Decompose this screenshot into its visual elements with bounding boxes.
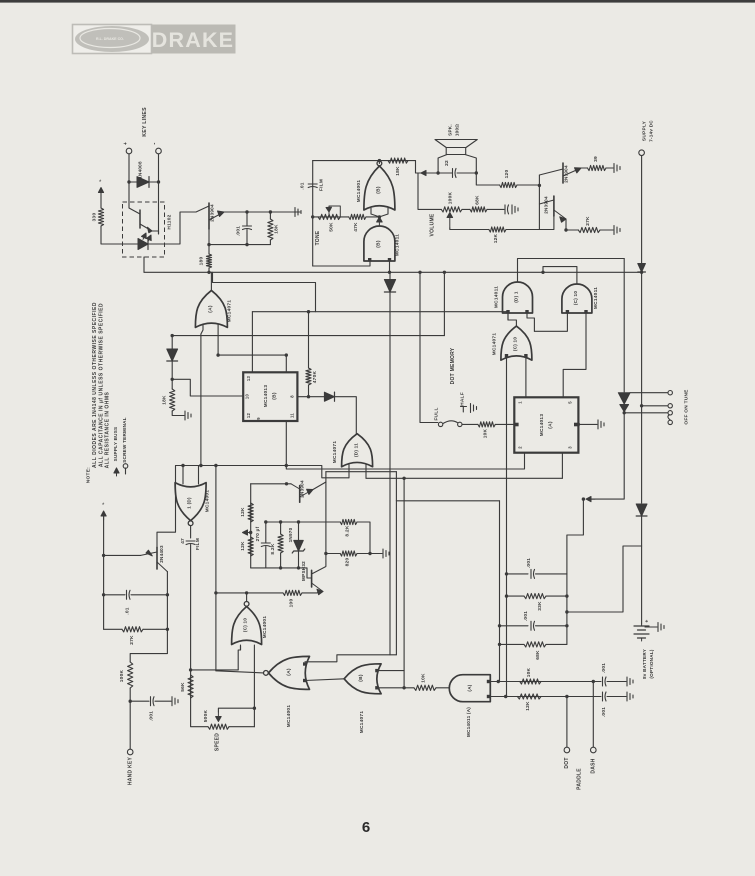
switch TUNE contact [668, 411, 672, 415]
flipflop U MC14013 (A) box [514, 397, 578, 452]
NAND B pin 6 [388, 258, 391, 261]
svg-text:68K: 68K [535, 650, 541, 660]
wire pin12 row [218, 354, 286, 356]
speaker driver box [446, 148, 466, 155]
svg-text:10: 10 [245, 394, 250, 400]
rail x390 [390, 292, 396, 655]
flipflop U MC14013 (B) box [243, 372, 297, 421]
svg-text:18K: 18K [274, 224, 280, 234]
gate U MC14011 (C) top [562, 284, 592, 313]
rail x396 low [395, 501, 397, 655]
node zener top [297, 520, 300, 523]
left col arrow down [103, 513, 105, 629]
diode dm bottom lead [171, 361, 173, 379]
capacitor C .001 keyer [243, 226, 252, 230]
svg-text:470K: 470K [312, 370, 318, 383]
node x404 10K [402, 686, 405, 689]
volume top to 68K [462, 208, 470, 210]
gate U MC14011 (D) top [503, 282, 533, 313]
capacitor C .01 film [308, 184, 317, 188]
270 leads [265, 522, 267, 543]
svg-text:MC14001: MC14001 [356, 180, 362, 203]
tone mid wire [313, 216, 349, 218]
820 left lead [326, 553, 340, 555]
capacitor C .001 ladder2 [531, 621, 535, 630]
battery to ground [645, 626, 657, 628]
resistor R 18K keyer [268, 219, 273, 240]
svg-text:12K: 12K [525, 701, 531, 711]
svg-text:ALL CAPACITANCE IN μf UNLESS O: ALL CAPACITANCE IN μf UNLESS OTHERWISE S… [98, 303, 104, 467]
nandC in right [563, 313, 586, 397]
transistor Q MPSH32 [311, 570, 313, 587]
NAND B output arrow up [378, 218, 380, 226]
wire key- down [158, 154, 160, 182]
switch HALF common [458, 422, 462, 426]
svg-text:PADDLE: PADDLE [577, 768, 583, 790]
tone osc left loop [312, 161, 314, 266]
optocoupler U H1102 dashed box [123, 202, 165, 257]
cap 01 row left [104, 594, 125, 596]
node dash 499 [497, 680, 500, 683]
node dot cap [565, 695, 568, 698]
svg-text:MC14071: MC14071 [332, 441, 338, 464]
resistor R 18K feedback [388, 158, 408, 163]
zener leads [298, 522, 300, 540]
osc emitter to rail [313, 472, 326, 490]
battery BT 8v [634, 626, 649, 638]
ladder cap2 right [536, 625, 567, 627]
82K leads [280, 522, 282, 534]
svg-text:(A): (A) [208, 305, 214, 313]
opto phototransistor emitter [140, 224, 159, 231]
resistor R 820 [340, 551, 357, 556]
svg-text:18K: 18K [162, 395, 168, 405]
wire key+ down [128, 154, 130, 202]
ladder cap2 row [500, 625, 529, 627]
svg-text:.01: .01 [125, 607, 131, 615]
svg-text:10K: 10K [421, 673, 427, 683]
68K ladder leads [500, 643, 525, 645]
volume wiper arrow [449, 214, 451, 228]
svg-text:DOT MEMORY: DOT MEMORY [450, 347, 456, 384]
ffA pin mid-left [515, 423, 519, 427]
svg-text:.001: .001 [523, 611, 529, 621]
node cap01 left [102, 593, 105, 596]
svg-text:NOTE:: NOTE: [86, 467, 92, 483]
2N4403 base up [157, 466, 176, 548]
svg-text:DRAKE: DRAKE [152, 28, 234, 52]
node darlington collector [538, 184, 541, 187]
wire R330 to LED [101, 226, 128, 244]
svg-text:27K: 27K [585, 216, 591, 226]
node ladder b [505, 594, 508, 597]
rail x499 [499, 501, 501, 682]
resistor R 10K dash [520, 679, 541, 684]
tone osc top wire [313, 160, 416, 162]
diode dm top lead [171, 336, 173, 349]
nandC pin sq left [566, 310, 569, 313]
zener CR 1N970 [294, 540, 304, 551]
ladder to supply [567, 546, 642, 612]
ground HALF [471, 404, 477, 413]
node key+ diode [127, 180, 130, 183]
wire LED anode [128, 243, 138, 245]
norA pin bottom [303, 679, 306, 682]
terminal DOT [564, 747, 570, 753]
resistor R 12K osc2 [248, 537, 253, 556]
ground keyer emitter row [295, 208, 301, 217]
resistor R 12K dot [517, 694, 541, 699]
note symbol tails [116, 468, 118, 474]
node 82K top [279, 520, 282, 523]
rail x420 switch [420, 272, 438, 422]
svg-text:2: 2 [518, 446, 523, 449]
wire pin10 route [172, 379, 243, 396]
svg-text:(B): (B) [358, 674, 364, 682]
wire w335 [172, 335, 444, 337]
tune wire [624, 412, 667, 414]
wire LED cathode to box edge [148, 243, 165, 245]
gate U MC14071 (C) OR [501, 326, 532, 360]
wire Q1 emitter row [224, 211, 300, 213]
diode CR 1N4008 [137, 177, 149, 188]
bus3b pin11 to pin5 [286, 421, 524, 469]
svg-text:820: 820 [345, 558, 351, 567]
svg-text:SUPPLY BUSS: SUPPLY BUSS [113, 427, 118, 462]
svg-text:2N3904: 2N3904 [210, 204, 215, 222]
orC out to nandD [508, 312, 516, 326]
ground 820 [383, 549, 389, 558]
Q out2 emitter down [565, 219, 567, 230]
or A input right [217, 324, 219, 355]
svg-text:8.2K: 8.2K [345, 525, 351, 536]
nandD pin sq right [525, 310, 528, 313]
speaker left lead [438, 155, 447, 174]
opto LED emission arrow 2 [147, 240, 150, 242]
node bus at supply diode [640, 271, 643, 274]
wire arrow to R330 [100, 190, 102, 208]
resistor R 27K handkey [122, 627, 143, 632]
resistor R 100K [128, 662, 133, 688]
82K top to corner [357, 522, 370, 554]
node bus at MC14011B pin [388, 271, 391, 274]
svg-text:6: 6 [362, 819, 370, 836]
potentiometer R 500K SPEED [208, 724, 229, 729]
speed right lead [229, 726, 254, 728]
switch HALF contact [461, 407, 467, 413]
diode under NAND B leads [389, 272, 391, 279]
wire opto emitter to key- [158, 231, 160, 234]
norC in right [253, 645, 255, 708]
wire Q1 base down [208, 229, 210, 245]
ground dot [627, 692, 633, 701]
svg-text:MC14001: MC14001 [286, 705, 292, 728]
supply arrow volume wire [426, 172, 430, 174]
33K lead right [546, 595, 567, 597]
node dash cap [592, 680, 595, 683]
100 to emitter [302, 591, 322, 593]
cap .001 lead top [246, 212, 248, 226]
opto LED [138, 239, 148, 250]
switch ON contact [668, 404, 672, 408]
opto phototransistor base bar [139, 210, 141, 228]
NAND B pin 5 [368, 258, 371, 261]
collector to 27K row [166, 595, 168, 630]
node tune bottom [623, 411, 626, 414]
ground 68K bypass [512, 205, 518, 214]
node 470K bottom [307, 395, 310, 398]
wire 47K to NOR inputs [366, 216, 379, 218]
rail x396 [395, 472, 397, 501]
svg-text:47K: 47K [353, 222, 359, 232]
svg-text:11: 11 [290, 413, 295, 418]
speed wiper arrow [217, 712, 219, 720]
bus3 [176, 466, 350, 478]
speaker right lead [465, 155, 476, 174]
svg-text:5: 5 [568, 401, 573, 404]
svg-text:OFF ON TUNE: OFF ON TUNE [684, 389, 690, 425]
270 lead low [265, 547, 267, 568]
svg-text:12K: 12K [240, 541, 246, 551]
capacitor C .001 handkey [151, 697, 155, 706]
supply tap wire [587, 413, 624, 499]
ladder cap1 right [536, 573, 567, 575]
node cap01 right [166, 593, 169, 596]
rail x325 down [325, 482, 327, 566]
opto LED emission arrow [142, 238, 145, 240]
svg-text:2N3904: 2N3904 [300, 480, 305, 498]
svg-text:2N3904: 2N3904 [544, 196, 549, 214]
svg-text:1: 1 [518, 401, 523, 404]
R27K to ground [600, 229, 613, 231]
svg-text:47: 47 [180, 538, 186, 544]
svg-text:68K: 68K [475, 195, 481, 205]
wire w311 [252, 311, 508, 313]
svg-text:1N4008: 1N4008 [138, 161, 143, 179]
svg-text:39: 39 [593, 156, 599, 162]
68K ladder right [546, 643, 567, 645]
R39 to ground [606, 167, 613, 169]
node osc bot 82K [279, 566, 282, 569]
svg-text:12K: 12K [240, 507, 246, 517]
orB in top [377, 671, 404, 688]
ground handkey cap [172, 697, 178, 706]
wire opto out bottom [143, 257, 145, 272]
R180 to bus [208, 268, 210, 272]
rail x404 [403, 478, 405, 670]
node pot left [311, 215, 314, 218]
supply rail low [641, 516, 643, 624]
capacitor C .001 ladder1 [531, 569, 535, 578]
node ladder tap [565, 610, 568, 613]
wire cap22 right [457, 172, 476, 174]
nandD pin sq left [506, 310, 509, 313]
10K to nandA [436, 687, 449, 689]
node x444 bus1 [443, 271, 446, 274]
node 56K top [189, 668, 192, 671]
svg-text:(C) 10: (C) 10 [573, 291, 578, 305]
gate U MC14011 (A) [449, 675, 490, 702]
terminal key line - [156, 148, 162, 154]
svg-text:.001: .001 [526, 558, 532, 568]
svg-text:8: 8 [290, 395, 295, 398]
820 right lead [357, 553, 370, 555]
zener lead low [298, 551, 300, 568]
svg-text:FILM: FILM [319, 179, 325, 191]
node 270 top [264, 520, 267, 523]
bus supply horizontal [144, 271, 642, 273]
node osc bot zener [297, 566, 300, 569]
orC in left long [506, 357, 508, 697]
wire pin8 row [297, 396, 324, 398]
56K top row [191, 669, 239, 671]
supply buss arrow left col [103, 516, 105, 520]
orD input left [348, 465, 350, 478]
bus4 [366, 477, 562, 479]
orB pin top [375, 669, 378, 672]
resistor R 8.2K osc [278, 534, 283, 553]
rail y500 [396, 500, 499, 502]
svg-text:330: 330 [92, 213, 98, 222]
svg-text:2N3904: 2N3904 [564, 165, 569, 183]
82K lead low [280, 553, 282, 568]
wire 12K to Q base rail [539, 216, 554, 230]
resistor R 10K iambic [414, 685, 436, 690]
svg-text:HAND KEY: HAND KEY [128, 757, 134, 786]
top edge black bar [0, 0, 755, 3]
svg-text:MC14011: MC14011 [593, 287, 599, 309]
node x215 out [214, 591, 217, 594]
dot cap row [567, 696, 601, 698]
wire diode to orD [335, 397, 357, 434]
wire opto to Q1 collector [165, 212, 197, 244]
wire speaker to 120 [476, 173, 499, 185]
svg-text:-: - [153, 142, 159, 144]
resistor R 12K osc1 [248, 503, 253, 522]
node ladder a [505, 572, 508, 575]
gate U MC14001 (A) [264, 656, 310, 689]
svg-text:.001: .001 [149, 711, 155, 721]
diode CR supply 2 [636, 504, 647, 516]
NAND B input left [313, 261, 370, 266]
supply buss arrow at 330 [100, 193, 102, 197]
potentiometer R 50K TONE [318, 214, 340, 219]
node x420 bus1 [418, 271, 421, 274]
wire diode cathode [149, 181, 159, 183]
svg-text:ALL DIODES ARE 1N4148 UNLESS O: ALL DIODES ARE 1N4148 UNLESS OTHERWISE S… [92, 302, 98, 468]
svg-text:MC14071: MC14071 [492, 333, 498, 356]
wire pin12 drop [285, 355, 287, 372]
norC output [246, 593, 248, 602]
ground ffA [598, 420, 604, 429]
node ffA gnd [577, 423, 580, 426]
orC pin sq right [524, 354, 527, 357]
12K af to base rail [506, 229, 539, 231]
orD input right [365, 465, 367, 479]
note supply buss arrow symbol [116, 473, 118, 476]
svg-text:(C) 10: (C) 10 [513, 337, 518, 351]
ground battery [658, 623, 664, 632]
nor D output to cap [190, 526, 192, 539]
capacitor C .01 handkey [127, 590, 131, 599]
supply rail mid [641, 272, 643, 503]
terminal DASH [591, 747, 597, 753]
node ladder right b [565, 594, 568, 597]
gate U MC14071 (D) [342, 434, 373, 467]
node speaker right [475, 171, 478, 174]
svg-text:(D) 11: (D) 11 [354, 443, 359, 457]
Q out1 emitter wire [581, 167, 588, 169]
or A output [210, 272, 212, 290]
node 470K top [307, 310, 310, 313]
svg-text:H1102: H1102 [167, 214, 173, 229]
node cap 001 bottom [245, 243, 248, 246]
svg-text:2N4403: 2N4403 [159, 545, 164, 563]
svg-text:.001: .001 [601, 663, 607, 673]
resistor R 120 [500, 182, 517, 187]
gate U MC14071 (B) [344, 664, 381, 694]
rail y471 [326, 471, 397, 473]
svg-text:SUPPLY: SUPPLY [642, 120, 648, 141]
svg-text:MC14011: MC14011 [395, 234, 401, 256]
diode CR to orD [324, 392, 334, 401]
cap 01 row right [131, 594, 167, 596]
svg-text:50K: 50K [329, 222, 335, 232]
NOR B output stub [378, 161, 380, 164]
node on supply [640, 404, 643, 407]
norA out left [216, 671, 264, 673]
47film down [191, 545, 208, 727]
nandC output up [543, 267, 577, 284]
nandD in left [507, 313, 509, 320]
node speed bracket [253, 707, 256, 710]
node dot 506 [504, 695, 507, 698]
wire key- into opto [158, 182, 160, 234]
svg-text:1N970: 1N970 [288, 527, 293, 542]
dot cap right [607, 696, 626, 698]
rail x624 low [623, 412, 625, 413]
off wire [630, 392, 668, 394]
ffA pin mid-right [574, 423, 578, 427]
darlington collector rail [538, 175, 540, 230]
orB in bottom [377, 687, 414, 689]
diode CR under NAND B [384, 280, 395, 293]
resistor R 8.2K top [340, 519, 357, 524]
supply tap down [567, 499, 584, 574]
node ladder c [498, 624, 501, 627]
svg-text:R.L. DRAKE CO.: R.L. DRAKE CO. [96, 37, 124, 41]
rail x624 [623, 259, 625, 393]
transistor Q 2N3904 out1 [562, 163, 564, 183]
2N4403 emitter wire [104, 554, 141, 556]
svg-text:DOT: DOT [564, 757, 570, 768]
transistor Q 2N3904 osc [299, 486, 301, 503]
transistor Q 2N4403 [156, 547, 158, 569]
wire pin13 drop [251, 312, 253, 373]
svg-text:MC14011 (A): MC14011 (A) [466, 707, 471, 737]
svg-text:MC14011: MC14011 [494, 286, 500, 308]
ladder right rail [566, 574, 568, 645]
ladder cap1 row [507, 573, 529, 575]
svg-text:8v BATTERY: 8v BATTERY [642, 649, 647, 679]
resistor R 27K [578, 227, 600, 232]
switch FULL contact [438, 422, 442, 426]
svg-text:56K: 56K [180, 682, 186, 692]
svg-text:100K: 100K [119, 669, 125, 682]
terminal key line + [126, 148, 132, 154]
cap .001 lead bottom [246, 230, 248, 245]
switch arm off-on-tune [668, 415, 670, 420]
